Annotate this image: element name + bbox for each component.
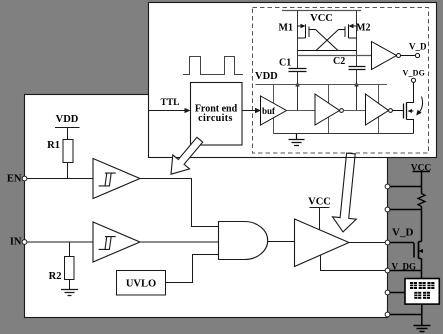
wire EN to schmitt xyxy=(27,178,93,180)
stage supply tap 2 xyxy=(328,85,330,134)
svg-text:IN: IN xyxy=(10,237,22,248)
svg-text:V_DG: V_DG xyxy=(403,69,426,78)
ground rail (detail) xyxy=(274,133,414,135)
arrowhead C2 wire at VDD rail xyxy=(354,82,358,87)
V_DG terminal (detail) xyxy=(411,78,415,82)
inverter V_D driver (detail) xyxy=(372,42,397,70)
wire V_D pin to gate (external mosfet) xyxy=(390,242,414,244)
V_D driver bubble xyxy=(397,54,401,58)
wire V_D driver to terminal xyxy=(401,55,416,57)
dashed inner box xyxy=(253,8,429,154)
AND gate U1 xyxy=(219,222,268,260)
VCC rail (detail) xyxy=(282,10,361,12)
terminal pin 2 (right edge) xyxy=(385,207,390,212)
wire buffer out to V_D terminal xyxy=(349,242,388,244)
detail view white box xyxy=(149,3,437,158)
resistor R2 xyxy=(65,257,75,280)
wire pin1 to VCC line xyxy=(390,186,422,188)
svg-text:TTL: TTL xyxy=(160,98,179,108)
V_D terminal (detail) xyxy=(415,53,419,57)
node rail 1 xyxy=(298,50,357,52)
svg-text:V_D: V_D xyxy=(392,227,413,239)
external VCC wire down xyxy=(421,172,423,194)
wire buf out to inv1 xyxy=(287,110,316,112)
IN terminal xyxy=(22,240,27,245)
wire UVLO to AND bottom input xyxy=(166,255,219,283)
wire pin5 to amp box xyxy=(390,292,405,294)
stage supply tap 1 xyxy=(273,85,275,134)
M1 source arrowhead xyxy=(301,24,306,28)
external power mosfet channel bar xyxy=(418,242,420,259)
wire AND out to buffer xyxy=(268,241,295,243)
power amplifier glyphs line2 (da qi) xyxy=(414,292,430,299)
main IC box xyxy=(25,95,388,318)
wire R1 to EN line xyxy=(67,163,69,179)
annotation arrow 2 (detail to buffer) xyxy=(333,153,357,232)
wire EN schmitt out to AND top input xyxy=(140,179,219,227)
wire R2 to ground xyxy=(69,280,71,290)
inverter 2 bubble xyxy=(389,109,393,113)
svg-text:EN: EN xyxy=(7,174,22,185)
output NMOS source lead (detail) xyxy=(407,120,414,134)
output NMOS body arrow (detail) xyxy=(411,110,414,112)
capacitor C2 xyxy=(349,67,366,70)
terminal pin 5 (right edge) xyxy=(385,290,390,295)
inverter 1 bubble xyxy=(340,109,344,113)
svg-text:M1: M1 xyxy=(279,23,293,34)
ground symbol (detail) xyxy=(289,134,305,146)
VDD rail (detail) xyxy=(256,84,388,86)
stage supply tap 3 xyxy=(378,85,380,134)
output NMOS channel bar (detail) xyxy=(406,103,408,120)
hysteresis symbol EN xyxy=(99,173,116,186)
curved annotation arrow at NMOS xyxy=(419,97,423,113)
wire amp to ground xyxy=(421,304,423,325)
wire pin6 to ground line xyxy=(390,314,422,316)
wire pin2 to VCC line xyxy=(390,209,422,211)
power amplifier box xyxy=(405,279,439,305)
arrowhead TTL input xyxy=(185,108,191,113)
external mosfet source lead xyxy=(419,258,422,260)
wire source down to amp xyxy=(421,259,423,279)
wire VCC to buffer xyxy=(319,208,321,231)
wire IN to schmitt xyxy=(27,241,93,243)
output NMOS drain lead (detail) xyxy=(407,83,414,103)
M2 source arrowhead xyxy=(349,24,354,28)
wire front end out xyxy=(242,110,258,112)
wire buffer second tap to V_DG terminal xyxy=(321,256,388,271)
svg-text:R1: R1 xyxy=(47,140,60,151)
svg-text:C2: C2 xyxy=(333,56,345,67)
inverter 1 (detail) xyxy=(315,94,340,125)
svg-text:VDD: VDD xyxy=(255,71,278,82)
external resistor (zigzag) xyxy=(418,194,425,207)
power amplifier glyphs line1 (gong lv fang) xyxy=(410,282,434,289)
external power mosfet gate bar xyxy=(413,243,415,258)
wire TTL input xyxy=(149,110,189,112)
buffer buf (detail) xyxy=(261,96,287,125)
terminal pin 6 (right edge) xyxy=(385,312,390,317)
svg-text:VCC: VCC xyxy=(308,197,331,208)
svg-text:R2: R2 xyxy=(49,271,62,282)
svg-text:VDD: VDD xyxy=(56,114,79,125)
VCC T-bar (buffer) xyxy=(310,207,330,209)
UVLO box xyxy=(117,271,166,296)
VDD T-bar xyxy=(55,127,80,129)
M1 branch vertical xyxy=(297,11,299,69)
output NMOS gate bar (detail) xyxy=(403,104,405,119)
resistor R1 xyxy=(63,140,73,163)
cross-couple wire M2 gate xyxy=(316,30,339,51)
M2 branch vertical xyxy=(356,11,358,67)
wire V_DG pin to source line xyxy=(390,270,422,272)
inverter 2 (detail) xyxy=(366,94,389,125)
wire inv2 to output nmos gate xyxy=(392,110,403,112)
external VCC T-bar xyxy=(413,171,431,173)
svg-text:VCC: VCC xyxy=(310,13,333,24)
detail box bottom border over arrow 2 xyxy=(337,157,360,159)
terminal V_DG xyxy=(385,268,390,273)
transistor M1 (PMOS) xyxy=(298,24,316,38)
external ground xyxy=(414,326,431,332)
annotation arrow 1 (front end to schmitt) xyxy=(171,137,203,174)
node rail 2 (to inverter) xyxy=(298,55,372,57)
schmitt trigger EN xyxy=(93,159,140,199)
external mosfet body arrow xyxy=(420,250,422,252)
terminal pin 1 (right edge) xyxy=(385,184,390,189)
wire IN line to R2 xyxy=(69,242,71,257)
arrowhead C1 wire at VDD rail xyxy=(295,82,299,87)
svg-text:C1: C1 xyxy=(279,58,291,69)
svg-text:M2: M2 xyxy=(356,23,370,34)
TTL square wave xyxy=(183,57,243,75)
schmitt trigger IN xyxy=(93,222,140,262)
wire C1 down to buf output node xyxy=(297,72,299,111)
front end circuits box xyxy=(191,83,243,146)
cross-couple wire M1 gate xyxy=(316,30,339,51)
arrowhead buf input xyxy=(255,108,261,114)
wire inv1 to inv2 xyxy=(343,110,365,112)
wire C2 down to inv1 output node xyxy=(356,70,358,111)
svg-text:UVLO: UVLO xyxy=(126,279,156,290)
svg-text:circuits: circuits xyxy=(198,113,233,124)
wire IN schmitt out to AND mid input xyxy=(140,241,219,243)
ground R2 xyxy=(61,290,78,296)
transistor M2 (PMOS) xyxy=(339,24,357,38)
capacitor C1 xyxy=(289,69,307,72)
svg-text:buf: buf xyxy=(262,106,276,116)
wire resistor to drain xyxy=(421,207,423,242)
terminal V_D xyxy=(385,240,390,245)
hysteresis symbol IN xyxy=(99,237,116,250)
EN terminal xyxy=(22,176,27,181)
svg-text:V_D: V_D xyxy=(409,42,427,52)
output buffer (big triangle) xyxy=(295,219,350,267)
external mosfet drain lead xyxy=(419,241,422,243)
wire VDD to R1 xyxy=(67,128,69,140)
